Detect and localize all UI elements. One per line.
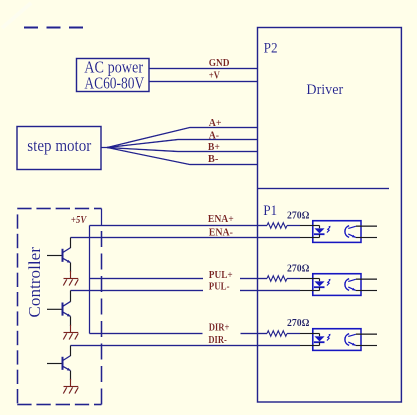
- wire ENA-: [71, 237, 301, 239]
- svg-text:PUL+: PUL+: [209, 270, 233, 281]
- wire B+: [107, 148, 258, 152]
- svg-text:step motor: step motor: [27, 136, 91, 155]
- svg-text:ENA-: ENA-: [209, 228, 233, 239]
- resistor 270ohm row U1: [267, 223, 287, 229]
- wire resistor to opto U1: [287, 225, 300, 227]
- svg-text:B-: B-: [208, 154, 218, 165]
- svg-text:A+: A+: [209, 118, 222, 129]
- svg-text:A-: A-: [209, 131, 219, 142]
- optocoupler U2: [300, 274, 377, 296]
- wire A-: [107, 140, 258, 148]
- svg-text:DIR+: DIR+: [209, 323, 230, 334]
- svg-text:270Ω: 270Ω: [287, 210, 310, 221]
- ground for Q2: [63, 325, 78, 340]
- svg-text:B+: B+: [208, 142, 220, 153]
- svg-text:Driver: Driver: [306, 82, 343, 98]
- resistor 270ohm row U3: [267, 331, 287, 337]
- wire ENA+: [90, 225, 268, 227]
- wire +5V drop: [101, 209, 103, 226]
- wire resistor to opto U3: [287, 333, 300, 335]
- wire PUL-: [71, 290, 204, 292]
- optocoupler U3: [300, 329, 377, 351]
- step motor box: [17, 127, 101, 170]
- svg-text:Controller: Controller: [25, 247, 44, 318]
- ground for Q3: [63, 379, 78, 394]
- transistor Q3: [47, 346, 71, 381]
- connector P2 Driver box: [258, 28, 402, 403]
- wire +5V bus vertical: [89, 226, 91, 334]
- wire dashed stub top-left: [24, 27, 83, 29]
- wire GND: [149, 68, 258, 70]
- AC power box: [77, 59, 150, 92]
- resistor 270ohm row U2: [267, 276, 287, 282]
- svg-text:DIR-: DIR-: [208, 335, 226, 346]
- transistor Q2: [47, 291, 71, 326]
- transistor Q1: [47, 238, 71, 273]
- svg-text:PUL-: PUL-: [209, 282, 230, 293]
- svg-text:+5V: +5V: [71, 215, 88, 226]
- svg-text:GND: GND: [209, 58, 230, 69]
- wire resistor to opto U2: [287, 278, 300, 280]
- svg-text:+V: +V: [209, 70, 221, 81]
- svg-text:P1: P1: [263, 203, 277, 219]
- svg-text:270Ω: 270Ω: [287, 264, 310, 275]
- svg-text:AC60-80V: AC60-80V: [84, 73, 144, 92]
- svg-text:P2: P2: [264, 41, 278, 57]
- svg-text:270Ω: 270Ω: [287, 318, 310, 329]
- ground for Q1: [63, 271, 78, 286]
- wire PUL+: [90, 278, 204, 280]
- wire DIR+: [90, 333, 203, 335]
- wire +V: [149, 81, 258, 83]
- svg-text:ENA+: ENA+: [208, 214, 234, 225]
- wire motor stub: [101, 147, 107, 149]
- wire B-: [107, 148, 258, 165]
- optocoupler U1: [300, 221, 377, 243]
- wire divider between P2 and P1 sections: [258, 188, 390, 190]
- wire A+: [107, 128, 258, 148]
- Controller dashed box: [17, 209, 101, 405]
- wire DIR-: [71, 345, 301, 347]
